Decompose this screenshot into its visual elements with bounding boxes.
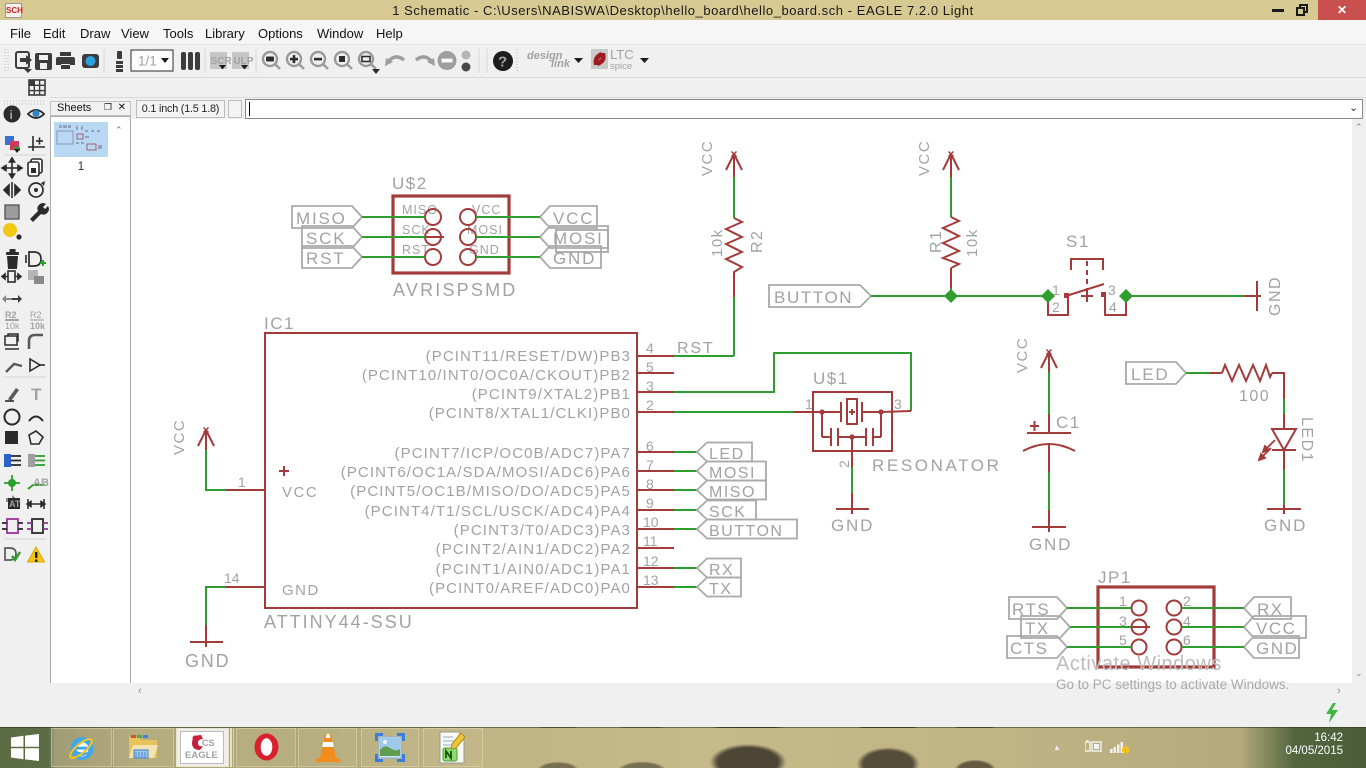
IC1 pin 3 stub xyxy=(637,391,674,393)
svg-text:(PCINT7/ICP/OC0B/ADC7)PA7: (PCINT7/ICP/OC0B/ADC7)PA7 xyxy=(395,445,631,462)
resistor 100 xyxy=(1222,365,1272,381)
wire pin8 to MISO flag xyxy=(674,489,697,491)
svg-text:3: 3 xyxy=(1108,282,1116,298)
status lightning xyxy=(1324,703,1340,723)
wire tool xyxy=(8,388,19,401)
svg-text:GND: GND xyxy=(831,516,874,535)
ground GND under resonator xyxy=(836,508,869,510)
R2 pin stub xyxy=(733,277,735,297)
wire LED1 to GND xyxy=(1283,470,1285,505)
pin header JP1 xyxy=(1098,568,1214,667)
supply VCC for R2 xyxy=(726,152,742,178)
erc tool b xyxy=(27,519,48,533)
svg-text:RESONATOR: RESONATOR xyxy=(872,456,1002,475)
svg-text:U$1: U$1 xyxy=(813,369,849,388)
start button xyxy=(11,734,39,761)
IC1 pin 13 stub xyxy=(637,586,674,588)
IC1 pin 8 stub xyxy=(637,489,674,491)
svg-text:R2: R2 xyxy=(30,310,42,320)
wire R1 to BUTTON net xyxy=(950,288,952,296)
svg-text:R1: R1 xyxy=(928,230,945,253)
wire IC1 pin14 to GND xyxy=(206,587,226,625)
supply VCC for C1 xyxy=(1041,350,1057,373)
title bar xyxy=(0,0,1366,20)
wire PB0 to resonator pin1 xyxy=(674,411,793,413)
label flag LED at pin6 xyxy=(697,443,752,462)
toolbar band xyxy=(0,45,1366,119)
label flag RX right xyxy=(1244,597,1291,619)
svg-text:11: 11 xyxy=(643,533,658,549)
svg-text:GND: GND xyxy=(282,582,320,599)
svg-text:(PCINT9/XTAL2)PB1: (PCINT9/XTAL2)PB1 xyxy=(472,386,631,403)
VLC icon xyxy=(313,732,343,763)
wire CTS net xyxy=(1067,646,1131,648)
junction S1 pin3 xyxy=(1119,289,1133,303)
svg-text:GND: GND xyxy=(1267,276,1284,316)
IC1 pin 6 stub xyxy=(637,451,674,453)
delete tool xyxy=(6,249,19,269)
add tool xyxy=(29,252,41,266)
circle tool xyxy=(5,410,20,425)
label flag MOSI right xyxy=(540,226,608,248)
Opera icon xyxy=(251,731,282,764)
command row xyxy=(136,100,225,118)
svg-text:(PCINT8/XTAL1/CLKI)PB0: (PCINT8/XTAL1/CLKI)PB0 xyxy=(429,405,631,422)
svg-text:12: 12 xyxy=(643,553,659,569)
svg-text:GND: GND xyxy=(1029,535,1072,554)
svg-text:LED: LED xyxy=(1131,365,1169,384)
smash tool xyxy=(5,334,19,349)
svg-text:1: 1 xyxy=(238,474,246,490)
GND pin stub xyxy=(851,493,853,514)
wire RST net horizontal xyxy=(674,355,734,357)
connector U$2 AVRISPSMD xyxy=(392,174,509,273)
label flag CTS xyxy=(1007,636,1067,658)
IC1 pin 12 stub xyxy=(637,567,674,569)
bottom band xyxy=(0,683,1366,727)
U$2 pin stub SCK xyxy=(425,236,444,238)
wire LED net xyxy=(1186,372,1210,374)
svg-text:10k: 10k xyxy=(709,228,726,257)
JP1 pad 6 xyxy=(1167,640,1182,655)
svg-text:SCK: SCK xyxy=(709,504,746,521)
arc tool xyxy=(29,417,43,422)
wire GND net bottom xyxy=(1182,646,1244,648)
label flag TX at pin13 xyxy=(697,578,741,597)
svg-text:100: 100 xyxy=(1239,388,1270,405)
wire VCC to C1 xyxy=(1048,372,1050,414)
resistor pin stub right / corner xyxy=(1272,373,1284,399)
wire MISO net xyxy=(362,216,425,218)
wire PB1 to resonator pin3 xyxy=(674,353,911,411)
IC1 pin 4 stub xyxy=(637,355,674,357)
rect tool xyxy=(5,431,18,444)
capacitor C1 plates xyxy=(1027,432,1071,434)
dimension tool xyxy=(27,499,45,509)
svg-text:LTC: LTC xyxy=(610,47,634,62)
JP1 pad 3 xyxy=(1132,620,1147,635)
wire pin13 to TX flag xyxy=(674,586,697,588)
svg-text:VCC: VCC xyxy=(699,140,716,176)
svg-text:MOSI: MOSI xyxy=(709,465,756,482)
ground GND under IC1 xyxy=(190,641,223,643)
polygon tool xyxy=(29,431,43,444)
svg-text:JP1: JP1 xyxy=(1098,568,1132,587)
svg-text:AVRISPSMD: AVRISPSMD xyxy=(393,280,518,300)
wire VCC net bottom xyxy=(1182,626,1244,628)
ground GND under LED1 xyxy=(1267,508,1301,510)
svg-text:2: 2 xyxy=(1052,299,1060,315)
svg-text:VCC: VCC xyxy=(171,419,188,455)
svg-text:BUTTON: BUTTON xyxy=(774,288,853,307)
group tool xyxy=(5,205,19,219)
LED1 pin stub top xyxy=(1283,414,1285,430)
value tool xyxy=(30,310,46,331)
svg-text:C1: C1 xyxy=(1056,413,1081,432)
mark tool xyxy=(28,136,45,151)
svg-text:AB: AB xyxy=(33,477,49,489)
svg-text:6: 6 xyxy=(1183,632,1191,648)
replace tool xyxy=(28,270,44,284)
svg-text:13: 13 xyxy=(643,572,659,588)
wire RST net vertical xyxy=(733,297,735,356)
taskbar xyxy=(0,727,1366,768)
net tool xyxy=(28,454,35,467)
svg-text:GND: GND xyxy=(185,651,230,671)
switch S1 xyxy=(1048,232,1126,315)
JP1 pad 4 xyxy=(1167,620,1182,635)
JP1 pad 2 xyxy=(1167,601,1182,616)
GND pin stub xyxy=(1048,510,1050,532)
resistor pin stub left xyxy=(1210,372,1222,374)
rotate tool xyxy=(29,183,43,197)
svg-text:AT: AT xyxy=(9,499,21,509)
IC IC1 ATTINY44-SSU xyxy=(264,314,637,632)
supply VCC for R1 xyxy=(943,152,959,178)
svg-text:3: 3 xyxy=(894,396,902,412)
split tool xyxy=(6,364,22,372)
U$1 pin2 stub xyxy=(851,451,853,467)
IC1 pin 9 stub xyxy=(637,509,674,511)
svg-text:6: 6 xyxy=(646,438,654,454)
svg-text:T: T xyxy=(31,385,42,404)
svg-text:10: 10 xyxy=(643,514,659,530)
name tool xyxy=(5,310,20,331)
errors tool xyxy=(28,547,45,562)
IC1 pin 7 stub xyxy=(637,470,674,472)
label flag GND right xyxy=(540,246,601,268)
C1 pin stub top xyxy=(1048,414,1050,433)
svg-text:R2: R2 xyxy=(5,310,17,320)
label flag SCK xyxy=(302,226,362,248)
label flag RST xyxy=(302,246,362,268)
wire BUTTON net xyxy=(871,295,1048,297)
label flag LED xyxy=(1126,362,1186,384)
svg-text:1: 1 xyxy=(805,396,813,412)
svg-text:ATTINY44-SSU: ATTINY44-SSU xyxy=(264,612,414,632)
LED1 pin stub bottom xyxy=(1283,450,1285,470)
JP1 pad 1 xyxy=(1132,601,1147,616)
wire MOSI net xyxy=(476,236,540,238)
bus tool xyxy=(4,454,11,467)
gateswap tool xyxy=(2,295,22,303)
wire VCC net xyxy=(476,216,540,218)
sheets panel xyxy=(50,99,131,698)
junction at R1/BUTTON xyxy=(944,289,958,303)
svg-text:9: 9 xyxy=(646,495,654,511)
copy tool xyxy=(28,159,42,176)
resistor R1 10k xyxy=(943,217,959,268)
wire pin12 to RX flag xyxy=(674,567,697,569)
svg-text:(PCINT2/AIN1/ADC2)PA2: (PCINT2/AIN1/ADC2)PA2 xyxy=(436,541,631,558)
wire C1 to GND xyxy=(1048,472,1050,510)
miter tool xyxy=(29,335,43,349)
show tool xyxy=(28,110,44,118)
svg-text:4: 4 xyxy=(646,340,654,356)
svg-text:(PCINT11/RESET/DW)PB3: (PCINT11/RESET/DW)PB3 xyxy=(426,348,631,365)
EAGLE icon xyxy=(180,731,224,764)
label flag VCC right xyxy=(540,206,597,228)
U$2 pad 2 xyxy=(460,209,476,225)
wire RST net xyxy=(362,256,425,258)
IC1 pin 2 stub xyxy=(637,411,674,413)
attribute tool xyxy=(6,495,18,505)
GND pin stub right xyxy=(1244,295,1261,297)
menu bar xyxy=(0,20,1366,45)
paste tool xyxy=(3,223,17,237)
svg-text:(PCINT6/OC1A/SDA/MOSI/ADC6)PA6: (PCINT6/OC1A/SDA/MOSI/ADC6)PA6 xyxy=(341,464,631,481)
U$2 pad 1 xyxy=(425,209,441,225)
R1 pin stub xyxy=(950,268,952,288)
svg-text:RX: RX xyxy=(709,562,734,579)
invoke tool xyxy=(30,359,45,371)
svg-text:(PCINT3/T0/ADC3)PA3: (PCINT3/T0/ADC3)PA3 xyxy=(454,522,631,539)
wire S1 to GND xyxy=(1126,295,1244,297)
svg-text:1: 1 xyxy=(1119,593,1127,609)
label flag BUTTON at pin10 xyxy=(697,520,797,539)
svg-text:?: ? xyxy=(498,54,507,71)
label flag MOSI at pin7 xyxy=(697,462,766,481)
svg-text:BUTTON: BUTTON xyxy=(709,523,783,540)
wire pin9 to SCK flag xyxy=(674,509,697,511)
label flag TX left xyxy=(1021,616,1070,638)
svg-text:TX: TX xyxy=(709,581,732,598)
svg-text:link: link xyxy=(551,58,571,70)
erc tool a xyxy=(2,519,23,533)
svg-text:GND: GND xyxy=(553,249,596,268)
junction tool xyxy=(4,475,20,491)
label flag RTS xyxy=(1009,597,1067,619)
svg-text:7: 7 xyxy=(646,457,654,473)
svg-text:5: 5 xyxy=(646,359,654,375)
svg-text:(PCINT1/AIN0/ADC1)PA1: (PCINT1/AIN0/ADC1)PA1 xyxy=(436,561,631,578)
IC1 pin 11 stub xyxy=(637,547,674,549)
label flag BUTTON xyxy=(769,285,871,307)
svg-text:RST: RST xyxy=(677,340,714,357)
JP1 pad 5 xyxy=(1132,640,1147,655)
erc check tool xyxy=(5,548,16,560)
svg-text:CTS: CTS xyxy=(1010,639,1049,658)
svg-text:2: 2 xyxy=(646,397,654,413)
resistor R2 10k xyxy=(726,218,742,277)
ground GND under C1 xyxy=(1032,526,1066,528)
Explorer icon xyxy=(128,733,159,762)
wire VCC to R1 xyxy=(950,177,952,217)
watermark xyxy=(1056,653,1222,676)
mirror tool xyxy=(4,182,20,198)
svg-text:i: i xyxy=(10,108,13,122)
svg-text:8: 8 xyxy=(646,476,654,492)
IC1 pin 1 stub xyxy=(226,489,265,491)
svg-text:SCK: SCK xyxy=(402,223,431,237)
svg-text:2: 2 xyxy=(836,460,852,468)
IC1 pin 5 stub xyxy=(637,372,674,374)
svg-text:14: 14 xyxy=(224,570,240,586)
label flag VCC right bottom xyxy=(1244,616,1306,638)
display tool xyxy=(5,136,14,145)
svg-text:(PCINT0/AREF/ADC0)PA0: (PCINT0/AREF/ADC0)PA0 xyxy=(429,580,631,597)
wire to LED1 xyxy=(1283,399,1285,414)
label flag MISO xyxy=(292,206,362,228)
wire VCC to R2 xyxy=(733,177,735,218)
svg-text:EAGLE: EAGLE xyxy=(185,750,218,761)
label flag SCK at pin9 xyxy=(697,501,756,520)
wire RTS net xyxy=(1067,607,1131,609)
IC1 pin 14 stub xyxy=(226,586,265,588)
wire SCK net xyxy=(362,236,425,238)
wire pin7 to MOSI flag xyxy=(674,470,697,472)
svg-text:5: 5 xyxy=(1119,632,1127,648)
svg-text:LED1: LED1 xyxy=(1298,417,1315,463)
U$2 pad 4 xyxy=(460,229,476,245)
canvas xyxy=(131,119,1352,683)
tray xyxy=(1053,743,1061,752)
wire RX net xyxy=(1182,607,1244,609)
svg-text:S1: S1 xyxy=(1066,232,1090,251)
wire GND net xyxy=(476,256,540,258)
svg-text:MISO: MISO xyxy=(709,484,756,501)
label flag RX at pin12 xyxy=(697,559,741,578)
IC1 pin 10 stub xyxy=(637,528,674,530)
svg-text:4: 4 xyxy=(1109,299,1117,315)
junction S1 pin1 xyxy=(1041,289,1055,303)
wire VCC to IC1 pin1 xyxy=(206,450,226,490)
svg-text:LED: LED xyxy=(709,446,745,463)
svg-text:RST: RST xyxy=(306,249,345,268)
label tool xyxy=(28,485,45,489)
svg-text:VCC: VCC xyxy=(282,484,318,501)
svg-text:GND: GND xyxy=(1264,516,1307,535)
U$2 pad 3 xyxy=(425,229,441,245)
label flag MISO at pin8 xyxy=(697,481,766,500)
wire pin6 to LED flag xyxy=(674,451,697,453)
svg-text:10k: 10k xyxy=(5,321,20,331)
U$2 pad 6 xyxy=(460,249,476,265)
wire pin10 to BUTTON flag xyxy=(674,528,697,530)
U$2 pad 5 xyxy=(425,249,441,265)
info tool xyxy=(4,106,21,123)
resonator U$1 xyxy=(793,369,911,468)
change tool xyxy=(30,203,49,222)
C1 pin stub bottom xyxy=(1048,445,1050,472)
svg-text:U$2: U$2 xyxy=(392,174,428,193)
move tool xyxy=(2,158,22,178)
capacitor C1 polarity + xyxy=(1030,421,1039,431)
svg-text:spice: spice xyxy=(610,61,632,72)
GND pin stub xyxy=(1283,505,1285,514)
label flag GND right bottom xyxy=(1244,636,1299,658)
svg-text:CS: CS xyxy=(202,738,215,748)
supply VCC for IC1 xyxy=(198,428,214,451)
svg-text:1/1: 1/1 xyxy=(138,54,157,69)
GND pin stub xyxy=(205,625,207,647)
svg-text:3: 3 xyxy=(646,378,654,394)
IE icon xyxy=(66,732,97,763)
svg-text:(PCINT4/T1/SCL/USCK/ADC4)PA4: (PCINT4/T1/SCL/USCK/ADC4)PA4 xyxy=(365,503,631,520)
svg-text:(PCINT5/OC1B/MISO/DO/ADC5)PA5: (PCINT5/OC1B/MISO/DO/ADC5)PA5 xyxy=(350,483,631,500)
diode LED1 xyxy=(1272,429,1296,450)
pinswap tool xyxy=(2,271,21,282)
svg-text:R2: R2 xyxy=(749,230,766,253)
svg-text:GND: GND xyxy=(1256,639,1298,658)
svg-text:VCC: VCC xyxy=(916,140,933,176)
svg-text:(PCINT10/INT0/OC0A/CKOUT)PB2: (PCINT10/INT0/OC0A/CKOUT)PB2 xyxy=(362,367,631,384)
svg-text:2: 2 xyxy=(1183,593,1191,609)
svg-text:VCC: VCC xyxy=(1014,337,1031,373)
svg-text:10k: 10k xyxy=(964,228,981,257)
Notepad++ icon xyxy=(437,731,468,764)
svg-text:10k: 10k xyxy=(30,321,46,331)
wire TX net xyxy=(1070,626,1131,628)
JP1 pin3 stub xyxy=(1132,626,1150,628)
svg-text:IC1: IC1 xyxy=(264,314,295,333)
LED1 emission arrows xyxy=(1259,440,1275,460)
wire resonator to GND xyxy=(851,467,853,493)
Photos icon xyxy=(375,733,405,762)
ground GND right xyxy=(1256,281,1258,311)
svg-text:!: ! xyxy=(1124,748,1126,754)
left palette xyxy=(0,97,50,683)
